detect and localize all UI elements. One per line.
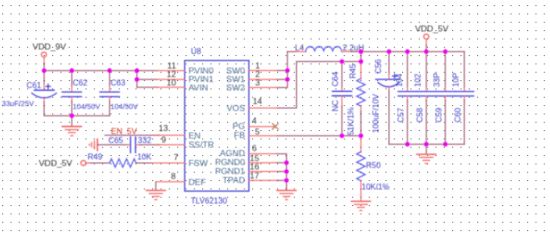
junction PGND chain / pin 15 xyxy=(284,160,289,165)
svg-text:C64: C64 xyxy=(331,71,340,86)
svg-text:C61: C61 xyxy=(27,81,42,90)
wire branch vertical to pins 12/10 xyxy=(136,71,138,88)
junction SW bus / pin 1 xyxy=(285,68,290,73)
svg-text:C59: C59 xyxy=(435,107,444,122)
capacitor C59 xyxy=(433,52,455,145)
svg-text:17: 17 xyxy=(250,171,260,181)
wire to pin 12 xyxy=(137,78,158,80)
pin 8 DEF stub xyxy=(157,181,185,183)
svg-text:332: 332 xyxy=(138,136,152,145)
svg-text:VDD_5V: VDD_5V xyxy=(39,158,73,168)
wire VDD_5V riser xyxy=(425,45,427,52)
capacitor C64 xyxy=(331,62,352,136)
junction gnd rail / C57 xyxy=(405,142,410,147)
svg-text:TPAD: TPAD xyxy=(222,175,245,185)
ground at R50 xyxy=(351,201,370,210)
wire pin3 to SW bus xyxy=(277,87,287,89)
capacitor C65 xyxy=(97,136,160,152)
pin 10 AVIN stub xyxy=(157,86,185,88)
svg-text:VOS: VOS xyxy=(227,103,246,113)
pin 11 PVIN0 stub xyxy=(157,70,185,72)
svg-text:104/50V: 104/50V xyxy=(110,102,138,111)
svg-text:102: 102 xyxy=(414,73,423,87)
svg-text:5: 5 xyxy=(255,127,260,137)
svg-text:13: 13 xyxy=(159,123,169,133)
junction VDD_5V rail / C57 xyxy=(405,49,410,54)
node VDD_5V (top right) power symbol xyxy=(415,24,449,46)
svg-text:R50: R50 xyxy=(366,161,381,170)
svg-text:C62: C62 xyxy=(73,78,88,87)
svg-text:FB: FB xyxy=(234,130,245,140)
junction SW bus / pin 2 xyxy=(285,77,290,82)
pin 1 SW0 stub xyxy=(249,70,278,72)
resistor R45 xyxy=(346,52,365,136)
svg-text:SS/TR: SS/TR xyxy=(189,140,215,150)
junction VOS rail / R45 xyxy=(359,59,364,64)
capacitor C56 (electrolytic) xyxy=(371,52,399,145)
pin 17 TPAD stub xyxy=(249,179,278,181)
svg-text:7: 7 xyxy=(174,152,179,162)
svg-text:VDD_5V: VDD_5V xyxy=(415,24,449,34)
svg-text:14: 14 xyxy=(253,96,263,106)
junction branch / input bus xyxy=(135,68,140,73)
svg-text:10K: 10K xyxy=(137,153,152,162)
svg-text:4: 4 xyxy=(252,116,257,126)
svg-text:10P: 10P xyxy=(452,73,461,87)
svg-text:51K/1%: 51K/1% xyxy=(346,107,355,135)
svg-text:9: 9 xyxy=(161,134,166,144)
wire top bus VDD_9V horizontal xyxy=(44,70,158,72)
wire bottom bus of input caps xyxy=(44,115,110,117)
svg-text:R45: R45 xyxy=(348,63,357,78)
svg-text:C60: C60 xyxy=(454,107,463,122)
svg-text:C57: C57 xyxy=(397,107,406,122)
junction VDD_5V rail / C56 xyxy=(387,49,392,54)
junction PGND chain / pin 17 xyxy=(284,178,289,183)
wire FB rail xyxy=(277,135,361,137)
wire output rail VDD_5V xyxy=(351,51,465,53)
pin 4 PG stub xyxy=(249,126,275,128)
svg-text:R49: R49 xyxy=(88,153,103,162)
node VDD_5V (left) power symbol xyxy=(39,158,86,168)
wire EN_5V to pin 13 xyxy=(105,134,160,136)
junction VDD_5V rail / C58 riser xyxy=(424,49,429,54)
ground sideways at C65 xyxy=(89,139,97,150)
capacitor C58 xyxy=(414,52,436,145)
capacitor C60 xyxy=(452,52,474,145)
junction gnd rail / C58 xyxy=(424,142,429,147)
wire output caps bottom rail xyxy=(389,143,464,145)
svg-text:DEF: DEF xyxy=(189,177,206,187)
junction VDD_5V rail / R45 branch xyxy=(359,49,364,54)
wire VOS vertical and rail xyxy=(277,107,297,109)
junction branch / pin 12 wire xyxy=(135,77,140,82)
pin 3 SW2 stub xyxy=(249,87,278,89)
svg-text:3: 3 xyxy=(255,78,260,88)
svg-text:10: 10 xyxy=(167,77,177,87)
svg-text:SW2: SW2 xyxy=(226,82,245,92)
capacitor C57 xyxy=(395,52,417,145)
pin 14 VOS stub xyxy=(249,107,278,109)
inductor L4 xyxy=(287,43,364,52)
svg-text:VDD_9V: VDD_9V xyxy=(33,42,67,52)
svg-text:U8: U8 xyxy=(191,47,202,56)
capacitor C63 xyxy=(100,71,138,116)
junction PGND chain / pin 16 xyxy=(284,169,289,174)
svg-text:33uF/25V: 33uF/25V xyxy=(2,99,34,108)
pin 9 SS/TR stub xyxy=(157,144,185,146)
IC U8 TLV62130 body xyxy=(185,47,249,206)
svg-text:C56: C56 xyxy=(374,59,383,74)
junction FB rail / R45-R50 xyxy=(359,134,364,139)
svg-text:8: 8 xyxy=(171,171,176,181)
pin 12 PVIN1 stub xyxy=(157,78,185,80)
ground at output caps xyxy=(417,144,436,163)
junction VDD_5V rail / C59 xyxy=(443,49,448,54)
wire SW bus vertical xyxy=(286,52,288,88)
pin 5 FB stub xyxy=(249,135,278,137)
svg-text:33P: 33P xyxy=(433,73,442,87)
wire pin2 to SW bus xyxy=(277,78,287,80)
junction C62 / input bus xyxy=(70,68,75,73)
resistor R49 xyxy=(86,153,156,168)
ground at DEF xyxy=(146,190,165,199)
svg-text:10K/1%: 10K/1% xyxy=(362,183,390,192)
node VDD_9V power symbol xyxy=(33,42,67,65)
junction FB rail / C64 xyxy=(340,134,345,139)
pin 16 PGND1 stub xyxy=(249,171,278,173)
pin 2 SW1 stub xyxy=(249,78,278,80)
svg-text:AVIN: AVIN xyxy=(189,82,209,92)
pin 7 FSW stub xyxy=(152,162,185,164)
pin 15 PGND0 stub xyxy=(249,162,278,164)
junction VOS rail / C64 xyxy=(340,59,345,64)
svg-text:NC: NC xyxy=(331,100,340,112)
no-connect X on pin 4 xyxy=(272,124,278,130)
wire to pin 10 xyxy=(137,86,158,88)
ground at input caps xyxy=(62,116,81,136)
wire pin1 to SW bus xyxy=(277,70,287,72)
svg-text:104: 104 xyxy=(395,73,404,87)
svg-text:FSW: FSW xyxy=(189,158,209,168)
svg-text:104/50V: 104/50V xyxy=(73,102,101,111)
svg-text:L4: L4 xyxy=(295,43,304,52)
pin 13 EN stub xyxy=(157,134,185,136)
svg-text:C63: C63 xyxy=(111,78,126,87)
ground at PGND xyxy=(277,190,296,199)
capacitor C62 xyxy=(62,71,100,116)
junction input caps bottom bus / ground xyxy=(70,113,75,118)
junction VDD_9V riser / input bus xyxy=(42,68,47,73)
svg-text:100uF/10V: 100uF/10V xyxy=(371,93,380,133)
pin 6 AGND stub xyxy=(249,153,278,155)
svg-text:C58: C58 xyxy=(416,107,425,122)
svg-text:6: 6 xyxy=(252,143,257,153)
wire VDD_9V vertical to bus xyxy=(43,63,45,71)
svg-text:EN_5V: EN_5V xyxy=(111,127,137,136)
resistor R50 xyxy=(357,136,390,201)
wire AGND/PGND chain xyxy=(277,153,287,155)
svg-text:C65: C65 xyxy=(108,136,123,145)
wire DEF pin 8 down to ground xyxy=(155,182,157,190)
junction gnd rail / C59 xyxy=(443,142,448,147)
junction C63 / input bus xyxy=(107,68,112,73)
capacitor C61 xyxy=(2,71,57,116)
svg-text:TLV62130: TLV62130 xyxy=(191,197,228,206)
